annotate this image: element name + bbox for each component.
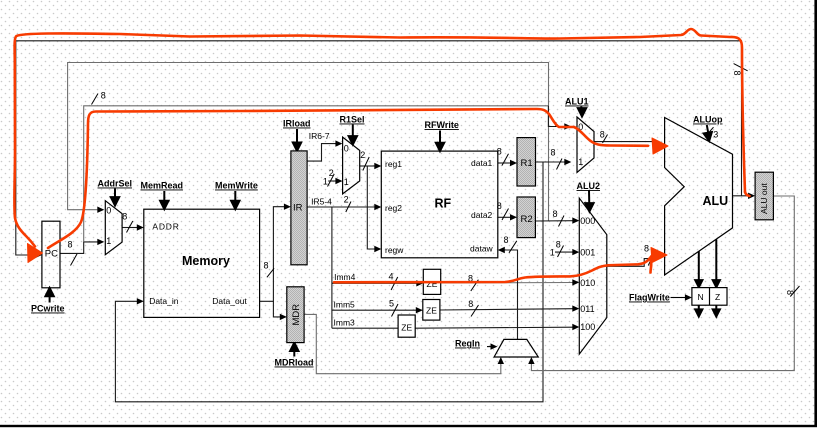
wire R2 to ALU2-000 — [535, 220, 573, 222]
svg-text:ALUop: ALUop — [693, 115, 723, 125]
svg-text:MemRead: MemRead — [141, 181, 184, 191]
wire FlagWrite — [671, 297, 687, 299]
arrowhead AddrSel-1 — [97, 239, 104, 245]
red arrowhead into ALU lower input — [651, 248, 667, 263]
buswidth slash ALUout feedback (vertical bus) — [790, 286, 799, 297]
svg-text:8: 8 — [497, 147, 502, 157]
wire ZE to ALU2-011 — [440, 309, 574, 310]
block ZE Imm5 — [423, 300, 440, 321]
wire PC-out to AddrSel-1 — [60, 242, 98, 254]
arrowhead ALU upper input — [653, 138, 660, 144]
control arrows (thick) — [45, 107, 719, 357]
svg-text:RegIn: RegIn — [455, 339, 480, 349]
svg-text:IR: IR — [293, 203, 303, 214]
svg-text:reg2: reg2 — [385, 203, 402, 213]
mux ALU1 — [577, 117, 594, 173]
svg-text:RFWrite: RFWrite — [425, 120, 459, 130]
mux RegIn — [494, 339, 538, 357]
arrowhead into ZE Imm5 — [416, 307, 423, 313]
mux AddrSel — [105, 201, 122, 255]
buswidth slash ALU2-out — [648, 253, 654, 266]
arrowhead ALU2-100 — [572, 324, 579, 330]
arrowhead ALU1-1 — [564, 159, 571, 165]
buswidth slash R1-out — [557, 159, 563, 170]
svg-text:8: 8 — [497, 201, 502, 211]
mux R1Sel — [343, 137, 360, 194]
arrowhead into R2 — [510, 214, 517, 220]
wire ALU1-out to ALU — [594, 141, 654, 143]
svg-text:2: 2 — [344, 195, 349, 205]
arrowhead into MDR — [280, 314, 287, 320]
arrowhead FlagWrite — [685, 294, 692, 300]
svg-text:8: 8 — [600, 130, 605, 140]
svg-text:MDRload: MDRload — [275, 358, 314, 368]
mux ALU2 — [579, 198, 607, 354]
svg-text:8: 8 — [785, 290, 795, 295]
wire R1Sel-out branch to regw — [367, 166, 375, 249]
block ZE Imm4 — [423, 269, 440, 294]
svg-text:IR6-7: IR6-7 — [309, 131, 330, 141]
svg-text:data2: data2 — [471, 210, 493, 220]
svg-text:PC: PC — [45, 249, 58, 260]
red arrowhead into ALU upper input — [652, 138, 668, 154]
svg-text:ZE: ZE — [401, 323, 412, 333]
red arrowhead into PC — [28, 244, 43, 263]
svg-text:Imm4: Imm4 — [334, 272, 356, 282]
buswidth slash data1 — [502, 154, 509, 166]
wire data1 to R1 — [498, 162, 512, 164]
wire R1Sel constant 1 stub — [328, 180, 336, 182]
svg-text:1: 1 — [106, 236, 111, 246]
control arrow ALU2 — [588, 191, 590, 207]
svg-text:ALU out: ALU out — [759, 183, 769, 214]
wire Data_out to IR/MDR bus — [260, 207, 285, 302]
svg-text:8: 8 — [644, 244, 649, 254]
arrowhead into ALUout — [748, 193, 755, 199]
buswidth slash R1Sel-1 — [328, 174, 335, 187]
register ALUout — [755, 172, 773, 220]
arrowhead ALU2-000 — [572, 217, 579, 223]
wire RegIn-mux out to dataw — [504, 250, 518, 339]
buswidth slash ALU2 const-1 — [558, 246, 564, 258]
svg-text:8: 8 — [732, 71, 742, 76]
arrowhead dataw (points left) — [498, 247, 505, 253]
arrowhead ALU2-001 — [572, 249, 579, 255]
svg-text:RF: RF — [435, 197, 452, 211]
arrowhead ALU1-0 — [564, 123, 571, 129]
arrowhead into ZE Imm4 — [416, 280, 423, 286]
control arrow IRload — [296, 129, 298, 146]
svg-text:dataw: dataw — [470, 243, 494, 253]
svg-text:3: 3 — [713, 130, 718, 140]
red scribble tail at ALU2 output — [650, 258, 651, 273]
buswidth slash ZE4-out — [471, 280, 479, 291]
svg-text:Imm3: Imm3 — [334, 317, 356, 327]
arrowhead R1Sel-0 — [335, 140, 342, 146]
buswidth slash data2 — [502, 209, 509, 221]
wire ALU-out to ALUout register — [733, 195, 750, 197]
wire RegIn select stub — [487, 346, 492, 348]
wire PC-out up to ALU1-0 (long top wire) — [84, 106, 549, 242]
wire ALU2-out to ALU — [607, 259, 653, 267]
svg-text:MDR: MDR — [291, 304, 302, 326]
svg-text:reg1: reg1 — [385, 159, 402, 169]
arrowhead RegIn-mux left input (up) — [498, 357, 504, 364]
arrowhead ALU lower input — [653, 255, 660, 261]
svg-text:010: 010 — [580, 278, 595, 288]
svg-text:ZE: ZE — [426, 306, 437, 316]
control arrow AddrSel — [114, 189, 116, 201]
svg-text:0: 0 — [344, 144, 349, 154]
svg-text:2: 2 — [360, 150, 365, 160]
svg-text:2: 2 — [329, 168, 334, 178]
buswidth slash ALU1-out — [603, 135, 608, 144]
red hook at ALU output — [745, 192, 750, 196]
svg-text:5: 5 — [389, 299, 394, 309]
flag wire N out — [698, 305, 700, 311]
wire R1Sel-out to reg1 — [360, 165, 376, 167]
svg-text:ADDR: ADDR — [152, 222, 179, 232]
block RF (register file) — [381, 151, 498, 258]
svg-text:8: 8 — [553, 209, 558, 219]
control arrow MDRload — [293, 348, 295, 357]
svg-text:IRload: IRload — [283, 119, 311, 129]
flag wire ALU to N — [698, 251, 700, 281]
arrowhead ALU2-011 — [572, 305, 579, 311]
buswidth slash top feedback (vertical bus) — [734, 64, 748, 71]
red highlight: PC to ALU1 to ALU — [48, 109, 648, 248]
buswidth slash ALUop — [707, 127, 714, 135]
flag wire Z out — [715, 305, 717, 311]
wire Imm4 to ZE — [332, 282, 418, 284]
svg-text:FlagWrite: FlagWrite — [629, 293, 670, 303]
svg-text:1: 1 — [323, 177, 328, 187]
arrowhead AddrSel-0 — [97, 207, 104, 213]
arrowhead into R1 — [510, 160, 517, 166]
svg-text:AddrSel: AddrSel — [98, 179, 133, 189]
svg-text:PCwrite: PCwrite — [31, 304, 65, 314]
svg-text:ALU2: ALU2 — [577, 181, 601, 191]
register IR — [291, 151, 307, 265]
svg-text:8: 8 — [504, 235, 509, 245]
svg-text:8: 8 — [556, 240, 561, 250]
svg-text:Data_in: Data_in — [149, 296, 179, 306]
arrowhead RegIn-mux right input (up) — [528, 357, 534, 364]
wire AddrSel-out to Memory ADDR — [122, 227, 138, 229]
wire ALUout to RegIn-mux / Data_in feedback — [531, 196, 794, 371]
control arrow PCwrite — [49, 292, 51, 303]
svg-text:8: 8 — [468, 299, 473, 309]
arrowhead into IR — [284, 204, 291, 210]
wire ZE to ALU2-010 — [441, 282, 574, 285]
svg-text:1: 1 — [578, 157, 583, 167]
wire bus to MDR — [273, 301, 281, 317]
svg-text:8: 8 — [264, 261, 269, 271]
wire ALU2 constant 1 stub — [555, 251, 574, 253]
arrowheads: wire into PC — [35, 252, 42, 258]
svg-text:1: 1 — [344, 177, 349, 187]
wire ALU-result to PC feedback (top loop) — [16, 41, 742, 255]
svg-text:regw: regw — [385, 245, 404, 255]
wire Imm3 to ZE — [332, 327, 398, 329]
svg-text:R2: R2 — [521, 214, 533, 225]
red highlight: Imm4 through ZE to ALU2 to ALU — [334, 256, 652, 283]
wire data2 to R2 — [498, 216, 512, 218]
block Memory — [144, 209, 260, 317]
svg-text:8: 8 — [551, 148, 556, 158]
register R2 — [517, 197, 535, 238]
svg-text:000: 000 — [580, 216, 595, 226]
wire R1 to Memory Data_in (bottom loop) — [115, 162, 543, 402]
svg-text:ALU: ALU — [703, 194, 729, 208]
register R1 — [517, 138, 536, 186]
flag wire ALU to Z — [715, 240, 717, 282]
flag register N and Z — [692, 288, 727, 306]
svg-text:0: 0 — [106, 206, 111, 216]
svg-text:MemWrite: MemWrite — [215, 181, 258, 191]
wire IR6-7 to R1Sel-0 — [307, 144, 336, 162]
svg-text:N: N — [698, 292, 704, 302]
svg-text:data1: data1 — [471, 158, 493, 168]
svg-text:1: 1 — [550, 248, 555, 258]
buswidth slash dataw — [509, 241, 517, 253]
buswidth slash PC-out — [71, 254, 78, 266]
buswidth slash AddrSel-out — [127, 221, 133, 233]
wire R1 to ALU1-1 — [536, 161, 566, 163]
svg-text:8: 8 — [68, 240, 73, 250]
control arrow MemRead — [163, 191, 165, 204]
svg-text:Data_out: Data_out — [212, 296, 247, 306]
svg-text:001: 001 — [580, 248, 595, 258]
buswidth slash IR5-4 — [346, 202, 351, 213]
control arrow ALUop — [707, 125, 709, 136]
buswidth slash Imm4 — [391, 277, 398, 290]
wire Imm5 to ZE — [332, 309, 417, 311]
tick on ALU1-0 wire — [555, 122, 557, 127]
buswidth slash PC top wire — [92, 94, 99, 105]
wire MDR-out to RegIn-mux — [304, 314, 501, 373]
control arrow R1Sel — [352, 125, 354, 140]
wire R2 to AddrSel-0 feedback (second loop) — [68, 63, 549, 221]
svg-text:ZE: ZE — [427, 279, 438, 289]
wire IR immediate-field drop — [331, 207, 333, 328]
svg-text:R1Sel: R1Sel — [340, 115, 365, 125]
buswidth slash ZE5-out — [471, 305, 479, 317]
control arrow ALU1 — [580, 107, 582, 111]
frame right border — [814, 0, 817, 427]
arrowhead reg2 — [374, 204, 381, 210]
svg-text:Z: Z — [715, 292, 720, 302]
svg-text:Memory: Memory — [182, 254, 230, 268]
buswidth slash R2-out — [559, 216, 565, 227]
svg-text:R1: R1 — [521, 158, 533, 169]
buswidth slash Imm5 — [392, 304, 399, 317]
buswidth slash Data_out bus — [267, 268, 274, 277]
arrowhead regw — [374, 246, 381, 252]
block ZE Imm3 — [398, 315, 415, 337]
register MDR — [287, 287, 304, 343]
control arrow RFWrite — [439, 131, 441, 146]
control arrow MemWrite — [234, 191, 236, 204]
arrowhead ALU2-010 — [572, 279, 579, 285]
svg-text:100: 100 — [580, 322, 595, 332]
buswidth slash R1Sel-out — [363, 157, 369, 171]
red highlight: ALU result to PC loop — [14, 29, 745, 247]
register PC — [42, 221, 60, 288]
wire ALU1-0 stub — [548, 106, 565, 127]
arrowhead RegIn select — [491, 343, 498, 349]
svg-text:Imm5: Imm5 — [334, 299, 356, 309]
svg-text:4: 4 — [389, 272, 394, 282]
wire ZE to ALU2-100 — [415, 327, 573, 328]
arrowhead reg1 — [374, 163, 381, 169]
svg-text:8: 8 — [122, 212, 127, 222]
arrowhead Memory ADDR — [137, 224, 144, 230]
arrowhead Memory Data_in — [137, 298, 144, 304]
svg-text:ALU1: ALU1 — [565, 97, 589, 107]
wire IR5-4 to reg2 — [307, 206, 375, 208]
ALU U1 — [665, 118, 733, 276]
svg-text:8: 8 — [101, 91, 106, 101]
frame bottom border — [0, 425, 817, 427]
svg-text:IR5-4: IR5-4 — [311, 197, 332, 207]
arrowhead R1Sel-1 — [335, 178, 342, 184]
svg-text:011: 011 — [580, 304, 594, 314]
